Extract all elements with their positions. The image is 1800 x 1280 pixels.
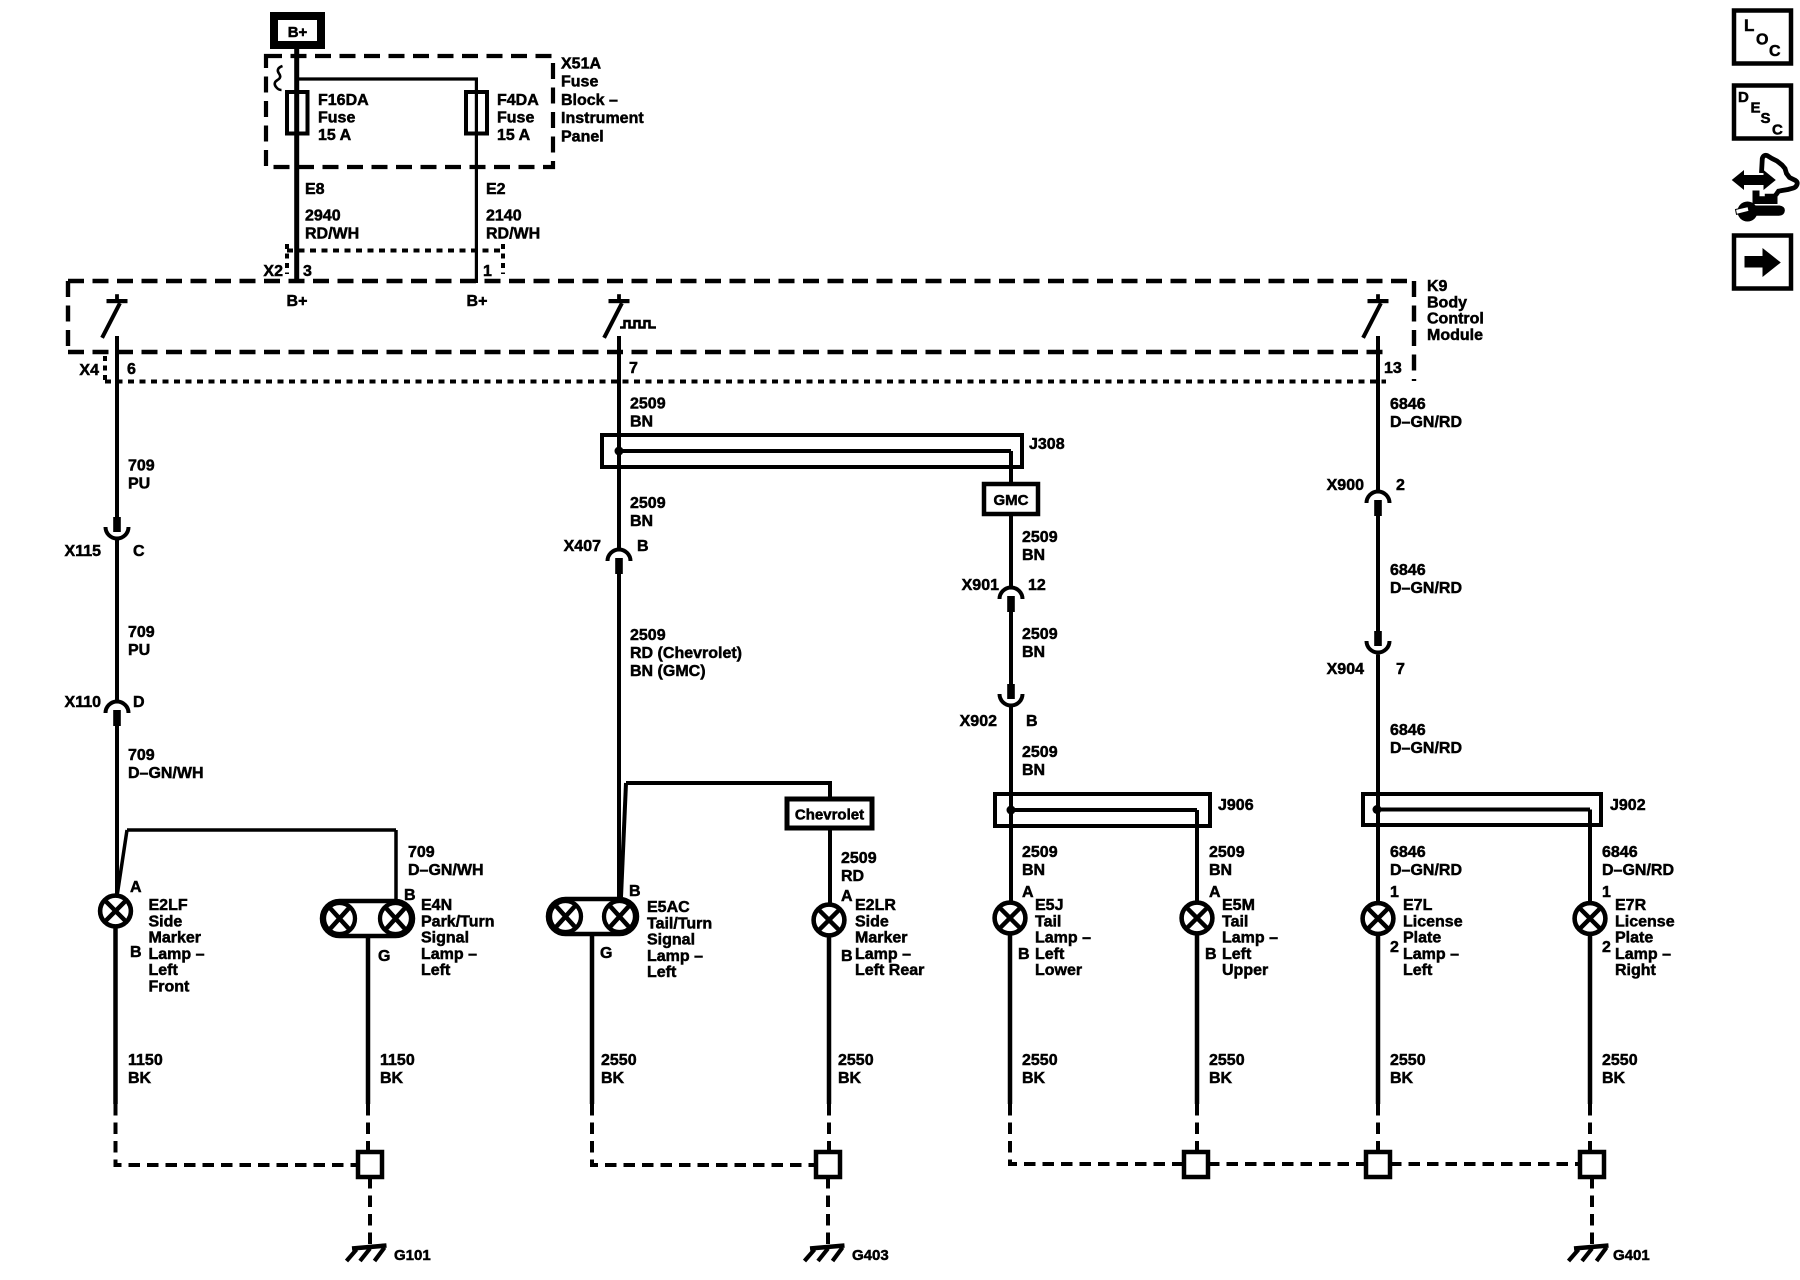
- splice square 2: [1366, 1152, 1390, 1177]
- junction dot J902: [1373, 805, 1382, 814]
- svg-text:J308: J308: [1029, 436, 1065, 453]
- svg-text:E8: E8: [305, 181, 325, 198]
- splice bus wire inside J308: [619, 449, 1011, 453]
- lamp E5J Tail Lamp - Left Lower: [995, 903, 1026, 934]
- K9 Body Control Module dashed box: [68, 281, 1414, 381]
- svg-text:X904: X904: [1327, 661, 1364, 678]
- svg-text:B+: B+: [467, 293, 488, 310]
- splice bus wire inside J902: [1377, 808, 1590, 812]
- wire 1150 BK from E2LF: [113, 927, 118, 1104]
- wire 2550 BK from E7R: [1588, 935, 1593, 1105]
- wire drop from J906 to E5M: [1195, 810, 1199, 902]
- svg-text:A: A: [1209, 884, 1221, 901]
- svg-text:B: B: [629, 883, 641, 900]
- wire B+ feed to fuse F16DA (thick): [294, 49, 299, 283]
- svg-text:G101: G101: [394, 1247, 431, 1264]
- connector X2 dotted row: [287, 249, 503, 253]
- switch contact bar in BCM at x=117: [107, 299, 128, 303]
- fuse F4DA: [466, 92, 487, 134]
- lamp E5AC Tail/Turn Signal Lamp - Left: [548, 899, 637, 934]
- dashed wire splice to ground G403: [826, 1177, 830, 1246]
- wire 709 PU below X115: [115, 540, 119, 700]
- wire 6846 below X900: [1376, 514, 1380, 631]
- svg-text:X4: X4: [79, 362, 99, 379]
- wire 6846 to E7L: [1376, 655, 1380, 903]
- dashed ground wire E4N to G101: [366, 1104, 370, 1152]
- svg-text:2: 2: [1396, 477, 1405, 494]
- wire branch horizontal to Chevrolet box: [626, 783, 830, 799]
- dashed ground wire E7R to splice: [1588, 1104, 1592, 1152]
- fuse block X51A dashed outline: [266, 56, 553, 167]
- wire drop to E4N pin B: [394, 830, 398, 901]
- ground symbol G401: [1574, 1246, 1609, 1249]
- svg-text:C: C: [133, 543, 145, 560]
- inline connector X901 pin 12: [1000, 588, 1023, 600]
- wire 2550 BK from E5M: [1195, 934, 1200, 1104]
- wire drop from J308 to GMC box: [1009, 451, 1013, 484]
- svg-text:B: B: [1026, 713, 1038, 730]
- switch contact bar in BCM at x=619: [609, 299, 630, 303]
- connector X4 dotted row: [105, 380, 1386, 384]
- B+ battery positive voltage symbol: [270, 12, 325, 49]
- dashed ground wire E7L to splice: [1376, 1104, 1380, 1152]
- svg-text:B: B: [841, 948, 853, 965]
- wire 2550 BK from E5AC: [590, 934, 595, 1104]
- svg-text:G: G: [600, 945, 612, 962]
- LOC navigation icon box: [1734, 11, 1791, 64]
- dashed wire splice to ground G101: [368, 1177, 372, 1246]
- wire branch diagonal junction: [118, 830, 128, 893]
- svg-text:X407: X407: [564, 538, 601, 555]
- svg-text:GMC: GMC: [994, 492, 1029, 509]
- wire 2550 BK from E7L: [1376, 935, 1381, 1105]
- svg-text:X900: X900: [1327, 477, 1364, 494]
- forward arrow glyph: [1745, 249, 1780, 276]
- wire drop from J902 to E7R: [1588, 810, 1592, 903]
- X4 left tick: [103, 356, 107, 382]
- svg-text:B+: B+: [287, 293, 308, 310]
- dashed ground wire E5J to splice: [1010, 1104, 1184, 1164]
- svg-text:E2: E2: [486, 181, 506, 198]
- splice pack J308 box: [602, 435, 1022, 467]
- svg-text:7: 7: [1396, 661, 1405, 678]
- svg-text:X2: X2: [263, 263, 283, 280]
- wire 6846 D-GN/RD from BCM pin 13: [1376, 336, 1380, 490]
- terminal curl at fuse block entry: [275, 66, 283, 90]
- svg-text:X110: X110: [65, 694, 102, 711]
- splice bus wire inside J906: [1011, 808, 1197, 812]
- switch pivot tick: [617, 294, 621, 299]
- dashed ground wire E5AC to G403 splice: [592, 1104, 816, 1165]
- wire branch horizontal to E4N: [127, 828, 396, 832]
- dashed ground wire E2LR to G403 splice: [827, 1104, 831, 1152]
- junction dot J308: [615, 447, 624, 456]
- DESC navigation icon box: [1734, 86, 1791, 139]
- lamp E2LR Side Marker Lamp - Left Rear: [814, 905, 845, 936]
- inline connector X407 pin B: [608, 550, 631, 562]
- wire 2509 RD from Chevrolet box to E2LR: [828, 828, 832, 905]
- svg-text:3: 3: [303, 263, 312, 280]
- X2 left tick: [285, 244, 289, 274]
- wire 2509 to E5AC: [617, 572, 621, 899]
- ground symbol G101: [352, 1246, 387, 1249]
- wire 709 PU from BCM pin 6: [115, 336, 119, 517]
- svg-text:7: 7: [629, 360, 638, 377]
- inline connector X900 pin 2: [1367, 492, 1390, 503]
- wire 1150 BK from E4N: [366, 934, 371, 1104]
- inline connector X110 pin D: [106, 702, 129, 714]
- wire 2509 BN below X901: [1009, 610, 1013, 684]
- switch lever: [1364, 305, 1380, 336]
- svg-text:2: 2: [1602, 939, 1611, 956]
- ground symbol G403: [810, 1246, 845, 1249]
- wire 2550 BK from E2LR: [827, 936, 832, 1104]
- GMC option box: [984, 484, 1038, 514]
- wire branch diagonal at E5AC pin B: [621, 783, 626, 897]
- svg-text:X902: X902: [960, 713, 997, 730]
- wire 2550 BK from E5J: [1008, 934, 1013, 1104]
- lamp E4N Park/Turn Signal Lamp - Left: [322, 901, 413, 936]
- switch lever: [605, 305, 621, 336]
- splice pack J902 box: [1363, 794, 1601, 825]
- fuse F16DA: [287, 92, 308, 134]
- switch pivot tick: [1376, 294, 1380, 299]
- dashed wire splice to ground G401: [1590, 1177, 1594, 1246]
- splice square 3: [1580, 1152, 1604, 1177]
- adjust icon thumb line: [1753, 191, 1777, 204]
- svg-text:12: 12: [1028, 577, 1046, 594]
- wire branch to fuse F4DA: [297, 79, 477, 283]
- dashed ground wire E2LF to G101 splice: [116, 1104, 359, 1165]
- svg-text:6: 6: [127, 361, 136, 378]
- svg-text:G401: G401: [1613, 1247, 1650, 1264]
- svg-text:B+: B+: [288, 24, 308, 41]
- wire 2509 BN from GMC box: [1009, 514, 1013, 586]
- Chevrolet option box: [787, 799, 872, 828]
- PWM square-wave symbol: [620, 321, 656, 328]
- svg-text:J906: J906: [1218, 797, 1254, 814]
- adjust icon hand outline: [1762, 155, 1798, 196]
- splice square at G403: [816, 1152, 840, 1177]
- inline connector X902 pin B: [1007, 684, 1015, 699]
- inline connector X904 pin 7: [1374, 631, 1382, 646]
- svg-text:2: 2: [1390, 939, 1399, 956]
- wire 2509 BN from BCM pin 7: [617, 336, 621, 548]
- svg-text:1: 1: [483, 263, 492, 280]
- junction dot J906: [1007, 806, 1016, 815]
- lamp E5M Tail Lamp - Left Upper: [1182, 903, 1213, 934]
- switch contact bar in BCM at x=1378: [1368, 299, 1389, 303]
- X2 right tick: [501, 244, 505, 274]
- dashed wire between splice squares: [1208, 1162, 1366, 1166]
- adjust icon wrench: [1738, 202, 1758, 222]
- lamp E7R License Plate Lamp - Right: [1575, 903, 1606, 934]
- dashed ground wire E5M to splice: [1195, 1104, 1199, 1152]
- adjust/settings icon double arrow: [1733, 171, 1776, 189]
- svg-text:G403: G403: [852, 1247, 889, 1264]
- splice square at G101: [358, 1152, 382, 1177]
- svg-text:A: A: [1022, 884, 1034, 901]
- svg-text:L: L: [1744, 16, 1754, 35]
- lamp E2LF Side Marker Lamp - Left Front: [100, 896, 131, 927]
- svg-text:A: A: [841, 888, 853, 905]
- svg-text:B: B: [1018, 946, 1030, 963]
- svg-text:Chevrolet: Chevrolet: [795, 807, 864, 824]
- svg-text:B: B: [1205, 946, 1217, 963]
- switch pivot tick: [115, 294, 119, 299]
- lamp E7L License Plate Lamp - Left: [1363, 903, 1394, 934]
- svg-text:13: 13: [1384, 360, 1402, 377]
- svg-text:1: 1: [1390, 884, 1399, 901]
- svg-text:X901: X901: [962, 577, 999, 594]
- dashed wire between splice squares: [1390, 1162, 1580, 1166]
- svg-text:A: A: [130, 879, 142, 896]
- inline connector X115 pin C: [113, 517, 121, 532]
- forward arrow icon box: [1734, 236, 1791, 289]
- wire 2509 BN to E5J: [1009, 706, 1013, 903]
- svg-text:X115: X115: [65, 543, 102, 560]
- wire 709 D-GN/WH to E2LF: [115, 724, 119, 896]
- svg-text:B: B: [404, 887, 416, 904]
- svg-text:1: 1: [1602, 884, 1611, 901]
- splice square 1: [1184, 1152, 1208, 1177]
- svg-text:B: B: [130, 944, 142, 961]
- switch lever: [103, 305, 119, 336]
- svg-text:J902: J902: [1610, 797, 1646, 814]
- svg-text:G: G: [378, 948, 390, 965]
- svg-text:D: D: [133, 694, 145, 711]
- splice pack J906 box: [995, 794, 1210, 826]
- svg-text:B: B: [637, 538, 649, 555]
